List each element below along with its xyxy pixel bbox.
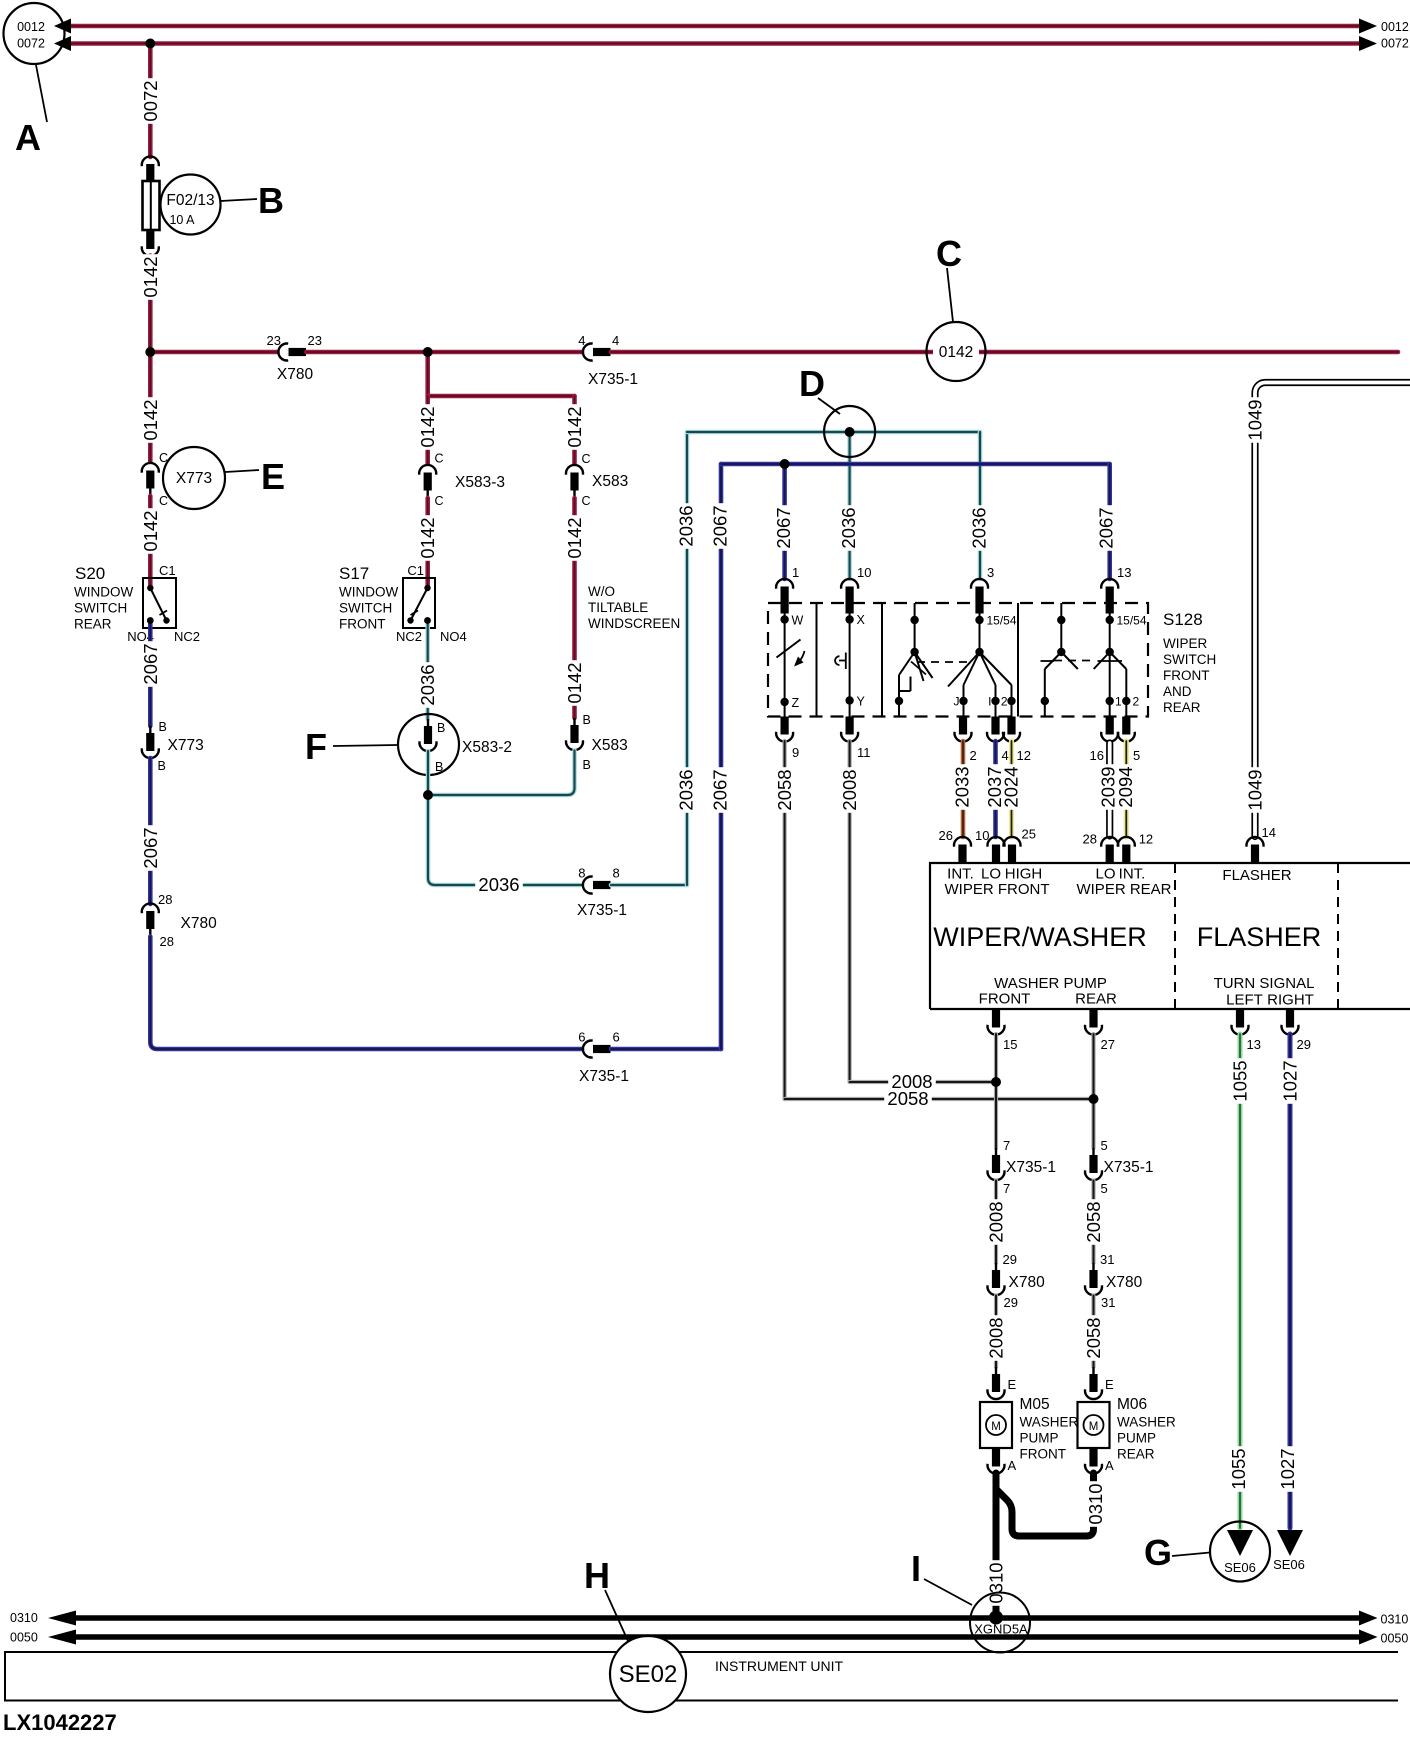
- S128 top pin 1 connector: [776, 565, 799, 614]
- svg-text:M06: M06: [1117, 1396, 1147, 1413]
- svg-text:2008: 2008: [986, 1201, 1007, 1242]
- svg-text:F: F: [305, 726, 327, 767]
- svg-text:26: 26: [939, 828, 953, 843]
- svg-text:WASHER: WASHER: [1020, 1415, 1079, 1430]
- svg-text:SE02: SE02: [619, 1661, 678, 1688]
- svg-text:C: C: [582, 452, 591, 466]
- wire 2067 drop to pin 1: [773, 464, 794, 579]
- unit top pin 26 connector: [939, 828, 971, 863]
- svg-text:X780: X780: [1106, 1274, 1143, 1291]
- svg-text:2036: 2036: [676, 505, 697, 546]
- connector X735-1 pin 4: [578, 333, 638, 388]
- svg-text:X735-1: X735-1: [588, 371, 638, 388]
- circle F connector X583-2 (background): [398, 714, 459, 775]
- unit washer pump labels: [979, 975, 1117, 1008]
- svg-text:INT.: INT.: [1119, 866, 1146, 883]
- svg-text:31: 31: [1101, 1295, 1115, 1310]
- fuse F02/13 connector top: [142, 156, 159, 181]
- svg-text:1049: 1049: [1245, 399, 1266, 440]
- label I callout: [911, 1548, 972, 1605]
- connector X735-1 pin 8: [577, 866, 627, 920]
- svg-text:PUMP: PUMP: [1117, 1431, 1156, 1446]
- svg-text:2008: 2008: [986, 1317, 1007, 1358]
- motor M06 washer pump rear: [1078, 1396, 1177, 1462]
- svg-text:FRONT: FRONT: [979, 991, 1031, 1008]
- svg-text:7: 7: [1003, 1138, 1010, 1153]
- svg-text:25: 25: [1022, 827, 1036, 842]
- svg-text:LO: LO: [1095, 866, 1115, 883]
- label A callout: [15, 65, 47, 158]
- svg-text:W/O: W/O: [588, 584, 615, 599]
- svg-text:27: 27: [1101, 1037, 1115, 1052]
- wire 2067 top horizontal: [721, 462, 1110, 467]
- wire 0142 fuse to bus: [140, 254, 161, 352]
- svg-text:X773: X773: [176, 470, 212, 487]
- svg-text:X773: X773: [168, 737, 204, 754]
- svg-text:2067: 2067: [140, 643, 161, 684]
- svg-text:X735-1: X735-1: [1006, 1159, 1056, 1176]
- wire 2008 pin15 down: [994, 1034, 998, 1148]
- wire 0310 M06 to join: [996, 1473, 1106, 1536]
- S128 bottom pin 5 connector: [1118, 717, 1140, 764]
- svg-text:0310: 0310: [1381, 1613, 1409, 1627]
- svg-text:1: 1: [792, 565, 799, 580]
- wire 2036 S17 to X583-2: [417, 622, 438, 719]
- svg-text:4: 4: [1002, 748, 1009, 763]
- wire 2067 across to riser: [611, 1047, 721, 1052]
- unit top pin 12 connector: [1118, 832, 1153, 863]
- wire 2058 pin27 down: [1091, 1034, 1095, 1148]
- svg-text:WIPER: WIPER: [1163, 636, 1208, 651]
- svg-text:13: 13: [1117, 565, 1131, 580]
- wire 2036 X583-2 down: [426, 751, 431, 795]
- svg-text:2036: 2036: [478, 874, 519, 895]
- svg-text:RIGHT: RIGHT: [1267, 992, 1314, 1009]
- svg-text:SE06: SE06: [1224, 1560, 1256, 1575]
- svg-text:8: 8: [578, 866, 585, 881]
- svg-text:X780: X780: [1009, 1274, 1046, 1291]
- label G callout: [1144, 1532, 1210, 1573]
- connector X773 pins B/B: [142, 720, 204, 773]
- svg-text:FLASHER: FLASHER: [1222, 867, 1291, 884]
- label C callout: [936, 233, 962, 322]
- junction dot 2036 at X583-2: [423, 790, 433, 800]
- svg-text:WIPER FRONT: WIPER FRONT: [945, 881, 1050, 898]
- svg-text:2036: 2036: [417, 664, 438, 705]
- S128 wiper switch box outline: [768, 603, 1148, 717]
- svg-text:0142: 0142: [564, 406, 585, 447]
- svg-text:S20: S20: [75, 564, 105, 583]
- ground bus 0050: [68, 1634, 1360, 1640]
- svg-text:REAR: REAR: [74, 617, 112, 632]
- svg-text:W: W: [792, 614, 804, 628]
- unit bottom pin 13 connector: [1232, 1010, 1261, 1053]
- S128 top pin 13 connector: [1101, 565, 1131, 614]
- svg-text:WASHER: WASHER: [1117, 1415, 1176, 1430]
- svg-text:0050: 0050: [10, 1631, 38, 1645]
- svg-text:WASHER PUMP: WASHER PUMP: [994, 975, 1107, 992]
- unit bottom pin 29 connector: [1282, 1010, 1311, 1053]
- connector X735-1 pin 6: [578, 1030, 629, 1086]
- svg-text:INT.: INT.: [947, 866, 974, 883]
- svg-text:A: A: [15, 117, 41, 158]
- unit bottom pin 27 connector: [1085, 1010, 1115, 1053]
- junction dot at 0072 drop: [145, 39, 155, 49]
- svg-text:REAR: REAR: [1117, 1447, 1155, 1462]
- unit turn signal labels: [1214, 975, 1315, 1009]
- svg-text:J: J: [954, 695, 960, 709]
- svg-text:2067: 2067: [773, 507, 794, 548]
- arrow SE06 left: [1224, 1530, 1256, 1575]
- svg-text:F02/13: F02/13: [166, 192, 214, 209]
- svg-text:SWITCH: SWITCH: [339, 601, 392, 616]
- svg-text:B: B: [437, 721, 445, 735]
- connector X780 pins 29/29: [988, 1252, 1046, 1310]
- svg-text:0072: 0072: [140, 80, 161, 121]
- S17 contact NO4 dot: [424, 617, 431, 624]
- svg-text:13: 13: [1247, 1037, 1261, 1052]
- wire 2058 to X780: [1083, 1181, 1104, 1264]
- fuse F02/13 connector bottom: [142, 231, 159, 256]
- svg-text:2058: 2058: [887, 1088, 928, 1109]
- svg-text:1055: 1055: [1228, 1448, 1249, 1489]
- svg-text:0142: 0142: [140, 399, 161, 440]
- svg-text:28: 28: [160, 934, 174, 949]
- wire 2067 S20 to X773: [140, 622, 161, 726]
- svg-text:X583-3: X583-3: [455, 474, 505, 491]
- wire 0142 to X583-3: [417, 396, 438, 464]
- svg-text:S128: S128: [1163, 610, 1203, 629]
- svg-text:2036: 2036: [676, 769, 697, 810]
- wire 0072 drop to fuse: [140, 44, 161, 158]
- junction dot 0142 fuse branch: [145, 347, 155, 357]
- svg-text:FRONT: FRONT: [1020, 1447, 1067, 1462]
- S128 bottom pin 9 connector: [776, 717, 799, 761]
- wire 0142 horizontal segment 3: [611, 350, 1398, 355]
- svg-text:0012: 0012: [17, 20, 45, 34]
- unit bottom pin 15 connector: [988, 1010, 1018, 1053]
- unit top pin 14 connector: [1247, 825, 1276, 863]
- svg-text:WIPER/WASHER: WIPER/WASHER: [933, 922, 1147, 952]
- svg-text:2024: 2024: [1001, 766, 1022, 807]
- svg-text:X780: X780: [181, 915, 218, 932]
- unit big label FLASHER: [1197, 922, 1322, 952]
- svg-text:0072: 0072: [17, 37, 45, 51]
- svg-text:1027: 1027: [1280, 1060, 1301, 1101]
- svg-text:2036: 2036: [838, 507, 859, 548]
- svg-text:X583-2: X583-2: [462, 739, 512, 756]
- svg-text:2: 2: [970, 748, 977, 763]
- unit top pin 10 connector: [975, 828, 1004, 863]
- svg-text:E: E: [1105, 1377, 1114, 1392]
- circle F outline and label: [398, 714, 512, 775]
- junction dot 0142 branch: [423, 347, 433, 357]
- circle E connector X773: [163, 447, 225, 509]
- svg-text:1055: 1055: [1230, 1060, 1251, 1101]
- svg-text:NC2: NC2: [174, 629, 200, 644]
- svg-text:X583: X583: [592, 737, 628, 754]
- connector X583-3 pins C/C: [419, 452, 505, 509]
- S128 rear wiper feed fan 15/54: [1094, 603, 1147, 717]
- S128 bottom pin 12 connector: [1003, 717, 1031, 764]
- switch S17 window switch front: [396, 563, 467, 644]
- connector X583 pins B/B: [566, 713, 628, 772]
- wire 0310 M05 to ground: [986, 1473, 1007, 1616]
- svg-text:2033: 2033: [952, 766, 973, 807]
- svg-text:C: C: [936, 233, 962, 274]
- S128 bottom pin 4 connector: [987, 717, 1009, 764]
- S17 description text: [339, 564, 398, 632]
- svg-text:5: 5: [1101, 1138, 1108, 1153]
- ground node XGND5A: [970, 1593, 1030, 1653]
- ground bus 0310: [68, 1615, 1360, 1621]
- svg-text:TURN SIGNAL: TURN SIGNAL: [1214, 975, 1315, 992]
- svg-text:C: C: [159, 494, 168, 508]
- svg-text:X735-1: X735-1: [577, 902, 627, 919]
- circle C wire id 0142: [927, 322, 986, 381]
- unit top pin 25 connector: [1004, 827, 1036, 863]
- S128 front wiper feed fan 15/54: [948, 605, 1017, 717]
- label E callout: [226, 456, 286, 497]
- svg-text:10: 10: [857, 565, 871, 580]
- wire 2067 riser: [710, 464, 731, 1049]
- junction dot 2058: [1089, 1094, 1099, 1104]
- svg-text:SWITCH: SWITCH: [1163, 652, 1216, 667]
- wire 2036 drop to pin 3: [969, 432, 990, 579]
- connector X780 pin 23: [267, 333, 322, 383]
- wire 0142 to S20: [140, 496, 161, 586]
- wire 0142 horizontal segment 2: [307, 350, 583, 355]
- connector M06 pin E: [1085, 1367, 1114, 1399]
- svg-text:G: G: [1144, 1532, 1172, 1573]
- wire 2058 horizontal: [785, 1088, 1094, 1109]
- connector X780 pins 31/31: [1085, 1252, 1143, 1310]
- svg-text:6: 6: [613, 1030, 620, 1045]
- svg-text:FLASHER: FLASHER: [1197, 922, 1322, 952]
- wire 2067 X773 to X780: [140, 758, 161, 904]
- svg-text:WINDSCREEN: WINDSCREEN: [588, 616, 680, 631]
- svg-text:FRONT: FRONT: [339, 617, 386, 632]
- svg-text:3: 3: [987, 565, 994, 580]
- wire 2036 drop to pin 10: [838, 432, 859, 579]
- right arrows 0012/0072: [1359, 19, 1409, 52]
- svg-text:PUMP: PUMP: [1020, 1431, 1059, 1446]
- svg-text:LO: LO: [981, 866, 1001, 883]
- svg-text:M: M: [991, 1421, 1001, 1433]
- svg-text:15/54: 15/54: [987, 614, 1017, 628]
- wiper/washer flasher unit box: [930, 863, 1410, 1009]
- svg-text:X780: X780: [277, 366, 314, 383]
- wire 2024 pin12: [1001, 741, 1022, 837]
- wire 0142 to X583 upper: [564, 396, 585, 464]
- wire 2067 down and across: [150, 937, 582, 1050]
- svg-text:28: 28: [1083, 832, 1097, 847]
- wire 0142 to S17: [417, 498, 438, 586]
- svg-text:23: 23: [308, 333, 322, 348]
- svg-text:M: M: [1089, 1421, 1099, 1433]
- wire 0142 X583 to X583: [564, 498, 585, 718]
- fuse F02/13 body: [143, 181, 160, 230]
- wire 2008 to X780: [986, 1181, 1007, 1264]
- svg-text:2067: 2067: [710, 505, 731, 546]
- wire 2036 down to horizontal run: [428, 795, 582, 885]
- svg-text:0310: 0310: [986, 1562, 1007, 1603]
- svg-text:X583: X583: [592, 473, 628, 490]
- power bus wire 0072 (second horizontal): [68, 41, 1360, 46]
- svg-text:12: 12: [1139, 832, 1153, 847]
- S128 rear selector link dashed: [1054, 660, 1092, 662]
- svg-text:10 A: 10 A: [169, 213, 195, 227]
- wire 1027 turn signal right: [1277, 1034, 1301, 1528]
- wire 0142 branch down-right: [425, 352, 430, 396]
- S128 column X-Y with park contact: [835, 605, 865, 717]
- power bus wire 0012 (top horizontal): [68, 24, 1360, 29]
- svg-text:1: 1: [1115, 695, 1122, 709]
- svg-text:2036: 2036: [969, 507, 990, 548]
- svg-text:Z: Z: [792, 696, 800, 710]
- svg-text:8: 8: [613, 866, 620, 881]
- S128 selector link dashed: [917, 661, 968, 663]
- svg-text:SE06: SE06: [1273, 1557, 1305, 1572]
- wire 2036 horizontal to riser: [611, 883, 687, 888]
- svg-text:B: B: [159, 720, 167, 734]
- wire 0142 to X773: [140, 352, 161, 462]
- unit top pin 28 connector: [1083, 832, 1119, 863]
- svg-text:2058: 2058: [774, 769, 795, 810]
- svg-text:12: 12: [1017, 748, 1031, 763]
- svg-text:0310: 0310: [10, 1611, 38, 1625]
- svg-text:14: 14: [1262, 825, 1276, 840]
- svg-text:2008: 2008: [839, 769, 860, 810]
- junction dot D node: [845, 427, 855, 437]
- svg-text:LEFT: LEFT: [1226, 992, 1263, 1009]
- wire 2067 drop to pin 13: [1096, 464, 1117, 579]
- svg-text:1049: 1049: [1245, 769, 1266, 810]
- wire 2008 to pump: [986, 1296, 1007, 1368]
- svg-text:X735-1: X735-1: [579, 1068, 629, 1085]
- svg-text:29: 29: [1297, 1037, 1311, 1052]
- S20 description text: [74, 564, 133, 632]
- svg-text:A: A: [1105, 1458, 1114, 1473]
- node A source circle with arrows: [4, 3, 72, 64]
- wire 2037 pin4: [984, 741, 1005, 837]
- svg-text:0142: 0142: [564, 662, 585, 703]
- svg-text:31: 31: [1100, 1252, 1114, 1267]
- circle SE02: [610, 1636, 686, 1712]
- S128 top pin 3 connector: [971, 565, 994, 614]
- connector M05 pin A: [988, 1449, 1017, 1474]
- circle G destination SE06: [1210, 1522, 1270, 1582]
- svg-text:0012: 0012: [1381, 20, 1409, 34]
- svg-text:29: 29: [1004, 1295, 1018, 1310]
- wire 2008 horizontal: [850, 1071, 996, 1092]
- switch S20 window switch rear: [127, 563, 200, 644]
- svg-text:2: 2: [1001, 695, 1008, 709]
- svg-text:B: B: [583, 758, 591, 772]
- svg-text:2: 2: [1133, 695, 1140, 709]
- ground bus right arrows: [1359, 1611, 1408, 1646]
- wire 1055 turn signal left: [1228, 1034, 1251, 1528]
- svg-text:0142: 0142: [564, 517, 585, 558]
- svg-text:A: A: [1008, 1458, 1017, 1473]
- svg-text:0072: 0072: [1381, 37, 1409, 51]
- wire 2058 pin9 down: [774, 741, 795, 1099]
- svg-text:D: D: [799, 363, 825, 404]
- svg-text:5: 5: [1133, 748, 1140, 763]
- connector X773 pins C/C: [142, 451, 168, 508]
- wire 2036 top horizontal: [687, 430, 980, 435]
- svg-text:INSTRUMENT UNIT: INSTRUMENT UNIT: [715, 1658, 844, 1674]
- svg-text:S17: S17: [339, 564, 369, 583]
- svg-text:0310: 0310: [1085, 1483, 1106, 1524]
- wire 2033 pin2: [952, 741, 973, 837]
- wire 2094 pin5: [1115, 741, 1136, 837]
- svg-text:2067: 2067: [1096, 507, 1117, 548]
- svg-text:0142: 0142: [140, 510, 161, 551]
- S128 front wiper selector fan: [895, 603, 933, 717]
- svg-text:E: E: [1008, 1377, 1017, 1392]
- wire 1049 from top right: [1245, 383, 1410, 837]
- wire 2039 pin16: [1098, 743, 1119, 836]
- svg-text:B: B: [158, 759, 166, 773]
- svg-text:2058: 2058: [1083, 1201, 1104, 1242]
- label D callout: [799, 363, 840, 414]
- svg-text:2067: 2067: [710, 769, 731, 810]
- connector X735-1 pins 7/7: [988, 1138, 1056, 1196]
- svg-text:B: B: [258, 180, 284, 221]
- svg-text:7: 7: [1003, 1181, 1010, 1196]
- W/O TILTABLE WINDSCREEN note: [588, 584, 680, 631]
- svg-text:M05: M05: [1020, 1396, 1050, 1413]
- wire 2036 label on horizontal: [475, 874, 523, 895]
- connector M05 pin E: [988, 1367, 1017, 1399]
- connector X583-2 pins B/B: [419, 719, 445, 774]
- svg-text:2094: 2094: [1115, 766, 1136, 807]
- unit internal labels: [945, 866, 1292, 899]
- S128 bottom pin 16 connector: [1090, 717, 1119, 764]
- svg-text:15: 15: [1003, 1037, 1017, 1052]
- svg-text:16: 16: [1090, 748, 1104, 763]
- circle B fuse designator F02/13 10A: [161, 175, 221, 235]
- connector X583 pins C/C: [566, 452, 628, 508]
- S128 rear wiper selector fan: [1041, 603, 1078, 717]
- connector X735-1 pins 5/5: [1085, 1138, 1153, 1196]
- svg-text:11: 11: [857, 745, 871, 760]
- svg-text:10: 10: [975, 828, 989, 843]
- svg-text:0142: 0142: [417, 517, 438, 558]
- svg-text:23: 23: [267, 333, 281, 348]
- wire 0142 branch horizontal: [428, 394, 575, 399]
- S128 bottom pin 11 connector: [841, 717, 870, 761]
- wire 2036 X583 B down: [428, 751, 575, 796]
- svg-text:LX1042227: LX1042227: [3, 1710, 117, 1735]
- svg-text:C1: C1: [407, 563, 424, 578]
- svg-text:WINDOW: WINDOW: [339, 585, 398, 600]
- svg-text:I: I: [988, 695, 991, 709]
- unit big label WIPER/WASHER: [933, 922, 1147, 952]
- svg-text:WIPER REAR: WIPER REAR: [1076, 881, 1171, 898]
- svg-text:E: E: [261, 456, 285, 497]
- svg-text:2067: 2067: [140, 827, 161, 868]
- svg-text:TILTABLE: TILTABLE: [588, 600, 648, 615]
- svg-text:XGND5A: XGND5A: [974, 1622, 1028, 1637]
- svg-text:C: C: [435, 452, 444, 466]
- S128 description text: [1163, 610, 1216, 715]
- svg-text:1027: 1027: [1277, 1448, 1298, 1489]
- svg-text:0050: 0050: [1381, 1632, 1409, 1646]
- svg-text:4: 4: [612, 333, 619, 348]
- svg-text:B: B: [583, 713, 591, 727]
